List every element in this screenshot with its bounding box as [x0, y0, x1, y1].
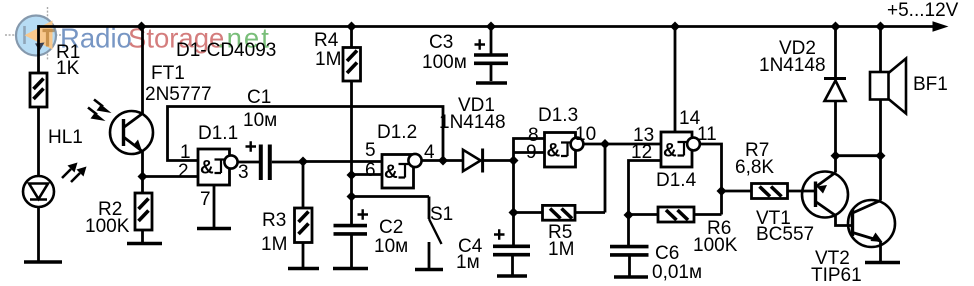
diode VD2 [759, 27, 846, 156]
svg-text:0,01м: 0,01м [652, 262, 702, 283]
capacitor C1 [243, 87, 277, 180]
logo orange arrow [25, 21, 53, 50]
resistor R2 [85, 177, 152, 243]
resistor R3 [261, 162, 312, 268]
op-amp gate D1.3 [526, 105, 596, 167]
logo crosshair [5, 7, 66, 60]
node R4/pin6 [347, 170, 357, 180]
transistor VT2 [848, 156, 895, 261]
svg-text:D1.2: D1.2 [377, 122, 417, 143]
node VD1/pins8-9 [509, 156, 519, 166]
ground (C3) [476, 81, 507, 85]
ground (R2) [127, 242, 162, 246]
rail arrow [933, 21, 949, 32]
resistor R5 [514, 144, 606, 260]
resistor R4 [314, 27, 361, 197]
node out/R7 [717, 186, 727, 196]
ground (pin7) [197, 227, 231, 231]
node FT1 emitter / R2 / D1.1 pin2 [138, 172, 148, 182]
wire pins 8 and 9 [514, 139, 545, 213]
LED HL1 [23, 176, 54, 207]
ground (VT2) [865, 261, 900, 265]
svg-text:10м: 10м [374, 236, 408, 257]
node rail/C3 [486, 22, 496, 32]
wire pin6 [352, 173, 383, 176]
svg-text:1N4148: 1N4148 [439, 112, 506, 133]
svg-text:FT1: FT1 [151, 63, 185, 84]
wire VT1/VT2 collector link [836, 154, 881, 157]
svg-text:BC557: BC557 [756, 224, 814, 245]
node BF1 bottom [876, 151, 886, 161]
svg-text:D1-CD4093: D1-CD4093 [176, 40, 276, 61]
power rail +V [39, 25, 939, 28]
svg-text:HL1: HL1 [48, 127, 83, 148]
svg-text:1K: 1K [56, 58, 80, 79]
diode VD1 [439, 95, 514, 173]
node: rail to FT1 collector [137, 22, 147, 32]
ground (C6) [614, 275, 648, 279]
svg-text:3: 3 [238, 162, 249, 183]
ground (R3) [288, 267, 319, 271]
svg-text:BF1: BF1 [913, 74, 948, 95]
svg-text:&: & [384, 162, 398, 183]
svg-text:10м: 10м [243, 110, 277, 131]
svg-text:+5...12V: +5...12V [887, 0, 959, 21]
transistor VT1 [802, 156, 853, 226]
svg-text:D1.1: D1.1 [198, 123, 238, 144]
node rail/BF1 [876, 22, 886, 32]
switch S1 [352, 197, 442, 269]
wire to VD1 [443, 159, 463, 162]
wire node to D1.2 pin5 [303, 160, 382, 163]
wire D1.4 out [700, 144, 722, 215]
capacitor C4 [456, 213, 530, 275]
svg-text:C2: C2 [379, 217, 403, 238]
node D1.2 out/feedback [438, 156, 448, 166]
logo circle [16, 16, 56, 56]
wire R1 column [37, 25, 40, 261]
op-amp gate D1.1 [178, 123, 249, 210]
capacitor C6 [610, 215, 702, 283]
node C2/S1 [347, 192, 357, 202]
node rail/R4 [347, 22, 357, 32]
svg-text:R4: R4 [314, 30, 339, 51]
capacitor C2 [334, 197, 409, 268]
svg-text:D1.4: D1.4 [656, 170, 697, 191]
svg-text:C3: C3 [429, 32, 453, 53]
svg-text:C6: C6 [655, 243, 679, 264]
svg-text:2: 2 [178, 161, 189, 182]
svg-text:1м: 1м [456, 252, 480, 273]
node R6/C6 [624, 210, 634, 220]
svg-text:1M: 1M [261, 234, 287, 255]
node rail/pin14 [670, 22, 680, 32]
svg-text:S1: S1 [430, 204, 453, 225]
resistor R6 [629, 207, 738, 256]
svg-text:1N4148: 1N4148 [759, 55, 826, 76]
wire C1 to node [272, 161, 303, 164]
svg-text:9: 9 [526, 142, 537, 163]
svg-text:D1.3: D1.3 [538, 105, 578, 126]
ground (C4) [497, 274, 527, 278]
svg-text:2N5777: 2N5777 [145, 84, 212, 105]
capacitor C3 [422, 27, 508, 82]
node R5/C4 [509, 208, 519, 218]
op-amp gate D1.4 [631, 108, 717, 191]
svg-text:100м: 100м [422, 52, 467, 73]
wire pin 12 [629, 161, 662, 216]
wire D1.2 out [422, 159, 443, 162]
resistor R1 [30, 42, 80, 107]
wire D1.3 out to D1.4 pin13 [584, 143, 662, 146]
wire D1.1 pin1 feedback [168, 107, 444, 161]
wire to D1.1 pin 2 [143, 175, 199, 178]
svg-text:100K: 100K [85, 216, 130, 237]
wire D1.1 pin7 to ground [213, 185, 216, 227]
resistor R7 [722, 140, 816, 199]
svg-text:1M: 1M [548, 239, 574, 260]
node VD2 bottom [831, 151, 841, 161]
svg-text:&: & [663, 141, 677, 162]
phototransistor FT1 [110, 27, 153, 178]
svg-text:C1: C1 [247, 87, 271, 108]
svg-text:&: & [200, 158, 214, 179]
svg-text:R3: R3 [262, 210, 286, 231]
logo dark emitter arrow [35, 43, 45, 52]
node rail/VD2 [831, 22, 841, 32]
svg-text:&: & [547, 141, 561, 162]
logo brown corner [43, 29, 55, 47]
logo base bar [23, 26, 26, 44]
ground (C2) [333, 267, 368, 271]
ground (S1) [415, 268, 443, 272]
node C1/R3 [298, 157, 308, 167]
HL1 emission arrows [62, 169, 80, 182]
op-amp gate D1.2 [365, 122, 435, 188]
node D1.3 out/R5 [600, 139, 610, 149]
svg-text:11: 11 [697, 124, 717, 145]
svg-text:6,8K: 6,8K [735, 157, 774, 178]
speaker BF1 [870, 27, 906, 156]
svg-text:6: 6 [365, 160, 376, 181]
svg-text:1M: 1M [315, 49, 341, 70]
FT1 light arrows [88, 100, 103, 115]
ground (HL1) [24, 260, 62, 264]
wire pin 14 [674, 27, 677, 133]
svg-text:7: 7 [200, 189, 211, 210]
svg-text:TIP61: TIP61 [811, 265, 862, 286]
svg-text:10: 10 [575, 124, 596, 145]
svg-text:5: 5 [365, 140, 376, 161]
wire D1.1 out to C1 [238, 161, 260, 164]
svg-text:100K: 100K [693, 235, 738, 256]
